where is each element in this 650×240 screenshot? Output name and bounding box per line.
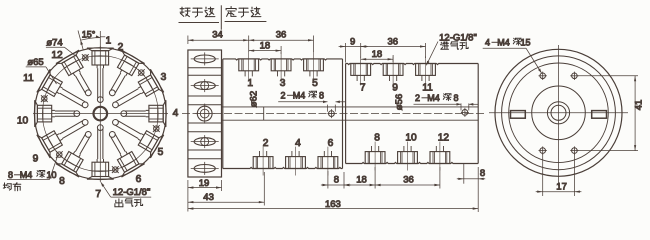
svg-text:163: 163 [325,199,341,210]
port 7 fitting block [87,125,114,180]
svg-text:3: 3 [161,72,167,83]
rotor port fitting 4 [194,138,215,146]
svg-text:4: 4 [295,138,301,149]
svg-text:12-G1/8": 12-G1/8" [113,187,151,198]
svg-text:8: 8 [8,170,13,180]
outer circle D74 [34,48,166,180]
M4x15 hole (574,76) [572,73,578,79]
svg-text:36: 36 [388,36,399,47]
dimension 41 [578,75,639,77]
port 9 fitting (top, D56) [383,64,403,76]
svg-text:1: 1 [105,35,111,46]
svg-text:8: 8 [334,175,339,186]
vertical centerline [99,46,101,182]
port 1 fitting block [87,48,114,103]
svg-text:9: 9 [350,36,355,47]
rotor port fitting 5 [194,165,215,173]
dimensions 8 18 36 8 (bottom right) [327,171,329,189]
M4 hole at joint (465) [462,110,468,116]
bolt circle D65 [42,56,158,172]
M4 screw hole at 345 deg [83,55,88,60]
svg-text:11: 11 [23,73,34,84]
main axis centerline [182,113,486,115]
center hub circle [94,107,108,121]
svg-text:8: 8 [480,168,485,179]
port 7 fitting (top, D56) [351,64,371,76]
svg-text:9: 9 [33,153,39,164]
dimensions 34 36 18 (top left) [187,36,189,45]
port 8 fitting (bottom, D56) [365,152,385,164]
svg-text:2: 2 [280,90,285,100]
svg-text:9: 9 [392,83,398,94]
dimension 17 [542,154,544,196]
left slot [511,111,526,119]
rotor column joint lines [188,67,222,69]
port 1 fitting (top, D62) [239,59,259,71]
M4x15 hole (543,151) [540,148,546,154]
rotor port fitting 1 [194,55,215,63]
M4 hole at joint (331) [329,111,335,117]
recess circle [509,63,609,163]
stator body section D62 [223,59,343,60]
15 degree angular dimension [78,31,83,50]
shaft bore lines [222,106,479,108]
svg-text:2: 2 [118,42,124,53]
M4 screw hole at 165 deg [113,167,118,172]
port 3 fitting block [106,69,163,118]
port 6 fitting (bottom, D62) [318,157,338,169]
port 12 fitting block [56,50,101,102]
svg-text:12: 12 [438,132,450,143]
svg-text:M4: M4 [427,93,440,103]
dimensions 19 43 163 (bottom left) [187,180,189,212]
port 4 fitting block [121,100,166,127]
port 11 fitting (top, D56) [416,64,436,76]
rotor flange column [188,50,222,177]
right slot [592,111,607,119]
horizontal centerline [33,113,168,115]
stator body section D56 [346,64,479,65]
svg-text:ø74: ø74 [46,38,62,49]
M4 screw hole at 225 deg [57,152,62,157]
svg-text:15: 15 [520,37,530,47]
port 5 fitting block [106,109,163,158]
svg-text:15°: 15° [82,30,96,40]
M4 screw hole at 285 deg [42,96,47,101]
svg-text:7: 7 [95,189,101,200]
svg-text:ø56: ø56 [394,94,405,110]
svg-text:34: 34 [212,29,223,40]
crosshair [558,45,560,186]
svg-text:8: 8 [319,90,324,100]
svg-text:1: 1 [247,78,253,89]
port 2 fitting (bottom, D62) [253,157,273,169]
svg-text:8: 8 [374,132,380,143]
svg-text:5: 5 [158,147,164,158]
svg-text:M4: M4 [497,37,510,47]
label rotor side [180,7,190,17]
flange circle [502,56,616,170]
port 10 fitting block [35,100,80,127]
port 5 fitting (top, D62) [304,59,324,71]
svg-text:8: 8 [59,176,65,187]
svg-text:10: 10 [46,170,56,180]
M4x15 hole (543,76) [540,73,546,79]
M4 screw hole at 45 deg [139,70,144,75]
port 8 fitting block [56,125,101,177]
port 9 fitting block [37,109,94,158]
svg-text:3: 3 [280,78,286,89]
port 11 fitting block [37,69,94,118]
svg-text:6: 6 [136,174,142,185]
label evenly spaced (junbu) [3,183,11,190]
svg-text:18: 18 [372,49,383,60]
svg-text:12: 12 [51,50,63,61]
svg-text:41: 41 [634,100,645,111]
port 4 fitting (bottom, D62) [286,157,306,169]
hub circles [547,102,569,124]
port 12 fitting (bottom, D56) [430,152,450,164]
svg-text:M4: M4 [293,90,306,100]
outer circle [495,49,622,176]
rotor center bearing [197,106,212,121]
divider line [220,5,222,29]
svg-text:19: 19 [199,178,210,189]
label stator side [226,7,236,17]
M4 screw hole at 105 deg [154,126,159,131]
svg-text:4: 4 [173,108,179,119]
M4x15 hole (574,151) [572,148,578,154]
svg-text:2: 2 [415,93,420,103]
svg-text:10: 10 [17,115,29,126]
svg-text:17: 17 [556,182,567,193]
port 10 fitting (bottom, D56) [398,152,418,164]
end cap depth line [463,164,465,184]
svg-text:6: 6 [328,138,334,149]
svg-text:43: 43 [203,192,214,203]
mid circle [532,86,586,140]
port 2 fitting block [99,50,144,102]
svg-text:4: 4 [485,37,490,47]
svg-text:36: 36 [276,29,287,40]
svg-text:7: 7 [360,83,366,94]
svg-text:5: 5 [312,78,318,89]
svg-text:ø62: ø62 [249,91,260,107]
svg-text:10: 10 [405,132,417,143]
dimensions 9 36 18 (top right) [345,43,347,63]
svg-text:2: 2 [263,138,269,149]
svg-text:18: 18 [356,175,367,186]
port 6 fitting block [99,125,144,177]
svg-text:36: 36 [403,175,414,186]
rotor shaft end line [263,107,265,120]
svg-text:M4: M4 [20,170,33,180]
rotor port fitting 2 [194,82,215,90]
svg-text:18: 18 [260,40,271,51]
svg-text:8: 8 [453,93,458,103]
port 3 fitting (top, D62) [271,59,291,71]
